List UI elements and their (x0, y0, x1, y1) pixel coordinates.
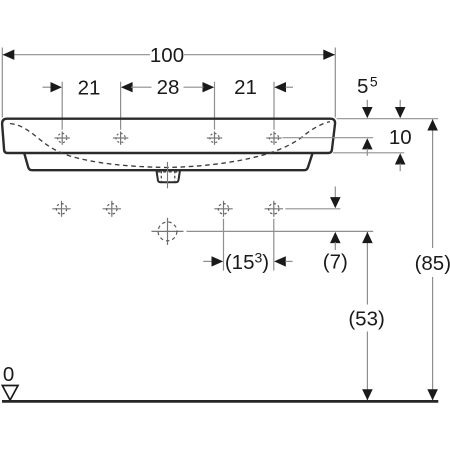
floor line (2, 400, 438, 403)
ref line drain level (187, 230, 374, 232)
tap hole 2 (113, 131, 128, 144)
svg-text:(7): (7) (323, 251, 348, 274)
dim 100 arrow right (323, 50, 335, 60)
svg-text:10: 10 (389, 126, 412, 149)
dim 15.3 right tail (285, 260, 292, 262)
dim 53 bottom arrow (362, 389, 373, 400)
svg-text:(153): (153) (225, 249, 269, 274)
dim 10 upper arrow (399, 100, 401, 108)
tap hole 3 (207, 131, 222, 144)
dim row tick 1 (61, 82, 63, 130)
ref line apron bottom (333, 152, 404, 154)
svg-text:100: 100 (150, 44, 184, 67)
dim 21 right arrow (274, 82, 286, 92)
drain trap center mark (152, 218, 184, 245)
inner bowl hidden curve (10, 122, 330, 168)
dim 5.5 lower arrow (362, 138, 373, 149)
ref line basin top (337, 118, 439, 120)
svg-text:(53): (53) (348, 307, 384, 330)
wall hole 1 (52, 201, 70, 217)
ref line wall hole level (285, 208, 340, 210)
dim 15.3 right arrow (274, 256, 286, 266)
dim 15.3 left arrow (212, 256, 224, 266)
basin lower apron (24, 153, 312, 170)
dim 85 line (432, 119, 434, 248)
wall hole 2 (103, 201, 121, 217)
tap hole 4 (266, 131, 281, 144)
dim 21 left arrow (51, 82, 62, 92)
dim 21 right tail (286, 86, 294, 88)
wall hole 4 (265, 201, 283, 217)
dim 15.3 extension line right (273, 219, 275, 271)
dim 5.5 upper arrow (366, 100, 368, 108)
dim 21 left tail (43, 86, 53, 88)
drain box hidden edge (158, 171, 180, 173)
dim 100 line (2, 54, 150, 56)
dim 10 lower arrow (395, 153, 406, 164)
dim row tick 2 (120, 82, 122, 130)
dim 100 arrow left (3, 50, 15, 60)
dim row tick 3 (214, 82, 216, 130)
tap hole 1 (55, 131, 70, 144)
dim 85 bottom arrow (427, 389, 438, 400)
drain centerline (167, 162, 169, 188)
dim 85 top arrow (427, 119, 438, 130)
dim 28 line (131, 86, 152, 88)
dim 53 top arrow (362, 232, 373, 243)
dim 100 extension line right (334, 48, 336, 118)
svg-text:28: 28 (157, 76, 180, 99)
wall hole 3 (214, 201, 232, 217)
svg-text:21: 21 (234, 76, 257, 99)
svg-text:0: 0 (3, 363, 14, 386)
basin outer body (2, 119, 335, 153)
svg-text:(85): (85) (415, 252, 450, 275)
drain box hidden side right (174, 171, 176, 182)
dim 53 line (366, 232, 368, 305)
dim 28 arrow left (121, 82, 133, 92)
dim row tick 4 (273, 82, 275, 130)
dim 28 arrow right (203, 82, 215, 92)
svg-text:21: 21 (78, 77, 101, 100)
drain box hidden side left (160, 171, 162, 182)
dim 7 upper arrow (334, 187, 336, 199)
dim 15.3 left tail (203, 260, 212, 262)
drain outlet box (156, 170, 180, 182)
dim 15.3 extension line left (223, 219, 225, 271)
datum triangle (2, 386, 18, 401)
ref line tap hole level (283, 137, 374, 139)
dim 100 extension line left (1, 48, 3, 118)
dim 7 lower arrow (330, 232, 341, 243)
